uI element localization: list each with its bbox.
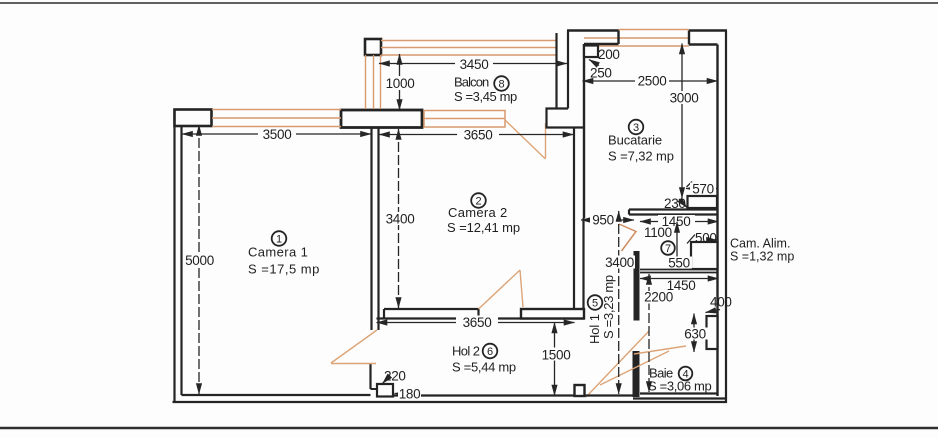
dim 220 bottom <box>383 369 406 384</box>
node pier bottom-middle 220 <box>371 384 394 397</box>
door swing balcony-camera2 (orange) <box>505 120 546 159</box>
node camera1 corner stub <box>175 110 212 127</box>
wire kitchen bottom wall <box>629 210 718 215</box>
wall bar hol1-camalim <box>634 251 640 321</box>
wire balcony-kitchen wall <box>547 31 585 128</box>
wire camera2 bottom wall <box>377 309 585 319</box>
wire hol2 bottom inner walls <box>393 394 633 396</box>
svg-text:3650: 3650 <box>463 315 492 330</box>
door zigzag kitchen (black+orange) <box>619 224 636 251</box>
dim 3450 <box>379 57 567 72</box>
svg-text:S =3,23 mp: S =3,23 mp <box>601 275 616 339</box>
svg-text:S =3,06 mp: S =3,06 mp <box>648 379 711 394</box>
svg-text:250: 250 <box>590 66 612 81</box>
svg-text:570: 570 <box>692 182 714 197</box>
node baie fixture 630 <box>707 316 718 349</box>
dim 3650 bottom <box>377 315 575 330</box>
room label bucatarie <box>608 120 674 164</box>
dim 2200 <box>643 274 674 392</box>
node camalim closet <box>691 242 718 269</box>
wire balcony top orange lines <box>381 41 556 56</box>
svg-text:2500: 2500 <box>638 74 667 89</box>
svg-text:3500: 3500 <box>263 127 292 142</box>
wire camera1-camera2 party wall <box>371 128 379 390</box>
wire kitchen top-right stub <box>689 31 727 397</box>
svg-text:3400: 3400 <box>386 212 415 227</box>
dim 1450 camalim <box>640 214 719 229</box>
room label camalim <box>730 237 794 264</box>
dim 3400 hol1 <box>604 211 635 394</box>
dim 3500 <box>182 127 371 142</box>
svg-text:6: 6 <box>487 346 493 358</box>
dim 500 <box>687 231 717 246</box>
svg-text:550: 550 <box>668 256 690 271</box>
node camera2 top pier <box>341 110 422 128</box>
svg-text:2200: 2200 <box>644 290 673 305</box>
dim 550 <box>666 256 692 271</box>
svg-text:Cam. Alim.: Cam. Alim. <box>730 237 790 251</box>
wall bar hol1-baie <box>633 351 640 397</box>
room label camera1 <box>248 231 320 276</box>
dim 3650 top <box>379 128 574 143</box>
dim 950 <box>581 213 634 228</box>
room label balcon <box>454 75 517 105</box>
dim 230 <box>664 196 687 211</box>
svg-text:3450: 3450 <box>460 57 489 72</box>
wire kitchen top wall <box>567 31 619 219</box>
room label camera2 <box>447 193 520 235</box>
dim 200 kitchen <box>598 47 620 62</box>
dim 400 <box>706 295 732 313</box>
svg-text:3400: 3400 <box>605 255 634 270</box>
dim 570 <box>686 182 717 197</box>
balcony corner post <box>365 39 381 55</box>
node pier hol1 bottom <box>575 385 585 396</box>
room label hol2 <box>452 344 516 375</box>
svg-text:1100: 1100 <box>644 225 672 240</box>
dim 630 <box>682 314 708 353</box>
dim 3000 <box>667 44 699 199</box>
dim 1500 <box>538 323 573 396</box>
window balcony door camera2 (orange) <box>424 111 505 128</box>
svg-text:Hol 1: Hol 1 <box>587 314 602 344</box>
svg-text:5: 5 <box>592 298 598 310</box>
room label camalim circle7 <box>661 241 675 255</box>
wire balcony left orange lines <box>366 55 381 109</box>
svg-text:S =1,32 mp: S =1,32 mp <box>730 250 794 264</box>
scan border bottom <box>0 427 938 430</box>
wire camera2-kitchen party wall <box>574 128 584 310</box>
svg-text:Camera 1: Camera 1 <box>248 245 308 260</box>
svg-text:630: 630 <box>684 327 706 342</box>
door swing camera1-hol2 (orange) <box>331 330 377 364</box>
svg-text:180: 180 <box>399 387 421 402</box>
dim 250 kitchen <box>589 60 612 81</box>
svg-text:1500: 1500 <box>542 348 571 363</box>
svg-text:220: 220 <box>384 369 406 384</box>
dim 5000 <box>183 125 216 394</box>
svg-text:5000: 5000 <box>185 253 214 268</box>
svg-text:200: 200 <box>598 47 620 62</box>
svg-text:1000: 1000 <box>386 76 415 91</box>
dim 1100 <box>644 222 677 268</box>
door swing camera2-hol2 (orange) <box>479 270 524 309</box>
node pier 570 <box>688 196 718 208</box>
scan border top <box>0 2 938 4</box>
room label baie <box>648 366 711 394</box>
node pillar 200 <box>584 46 598 58</box>
svg-text:Hol 2: Hol 2 <box>452 344 480 359</box>
wire camera1 inner walls <box>182 127 371 396</box>
svg-text:S =3,45 mp: S =3,45 mp <box>454 89 517 104</box>
dim 180 bottom <box>395 387 422 402</box>
svg-text:950: 950 <box>592 213 614 228</box>
svg-text:Bucatarie: Bucatarie <box>608 133 662 148</box>
svg-text:S =12,41 mp: S =12,41 mp <box>447 220 520 235</box>
svg-text:3650: 3650 <box>464 128 493 143</box>
wire camalim bottom wall <box>640 270 718 273</box>
svg-text:400: 400 <box>710 295 732 310</box>
dim 2500 <box>583 74 718 89</box>
dim 3400 camera2 <box>383 129 416 308</box>
svg-text:230: 230 <box>664 196 686 211</box>
dim 1450 baie <box>640 278 719 293</box>
svg-text:Balcon: Balcon <box>454 75 489 90</box>
svg-text:S =7,32 mp: S =7,32 mp <box>608 149 674 164</box>
node camera2 bottom-right wall piece <box>521 309 584 319</box>
svg-text:S =5,44 mp: S =5,44 mp <box>452 360 516 375</box>
wire baie bottom walls <box>633 394 726 399</box>
dim 1000 <box>383 54 417 110</box>
window camera1 (orange triple line) <box>212 110 341 127</box>
wire kitchen top orange lines <box>584 30 689 47</box>
svg-text:3000: 3000 <box>670 91 699 106</box>
door swing baie (orange) <box>586 331 686 397</box>
svg-text:Camera 2: Camera 2 <box>448 205 507 220</box>
svg-text:S =17,5 mp: S =17,5 mp <box>248 262 320 277</box>
svg-text:500: 500 <box>695 231 717 246</box>
svg-text:7: 7 <box>665 243 671 255</box>
room label hol1 (vertical) <box>587 275 616 344</box>
wire walls-outer <box>173 31 728 404</box>
